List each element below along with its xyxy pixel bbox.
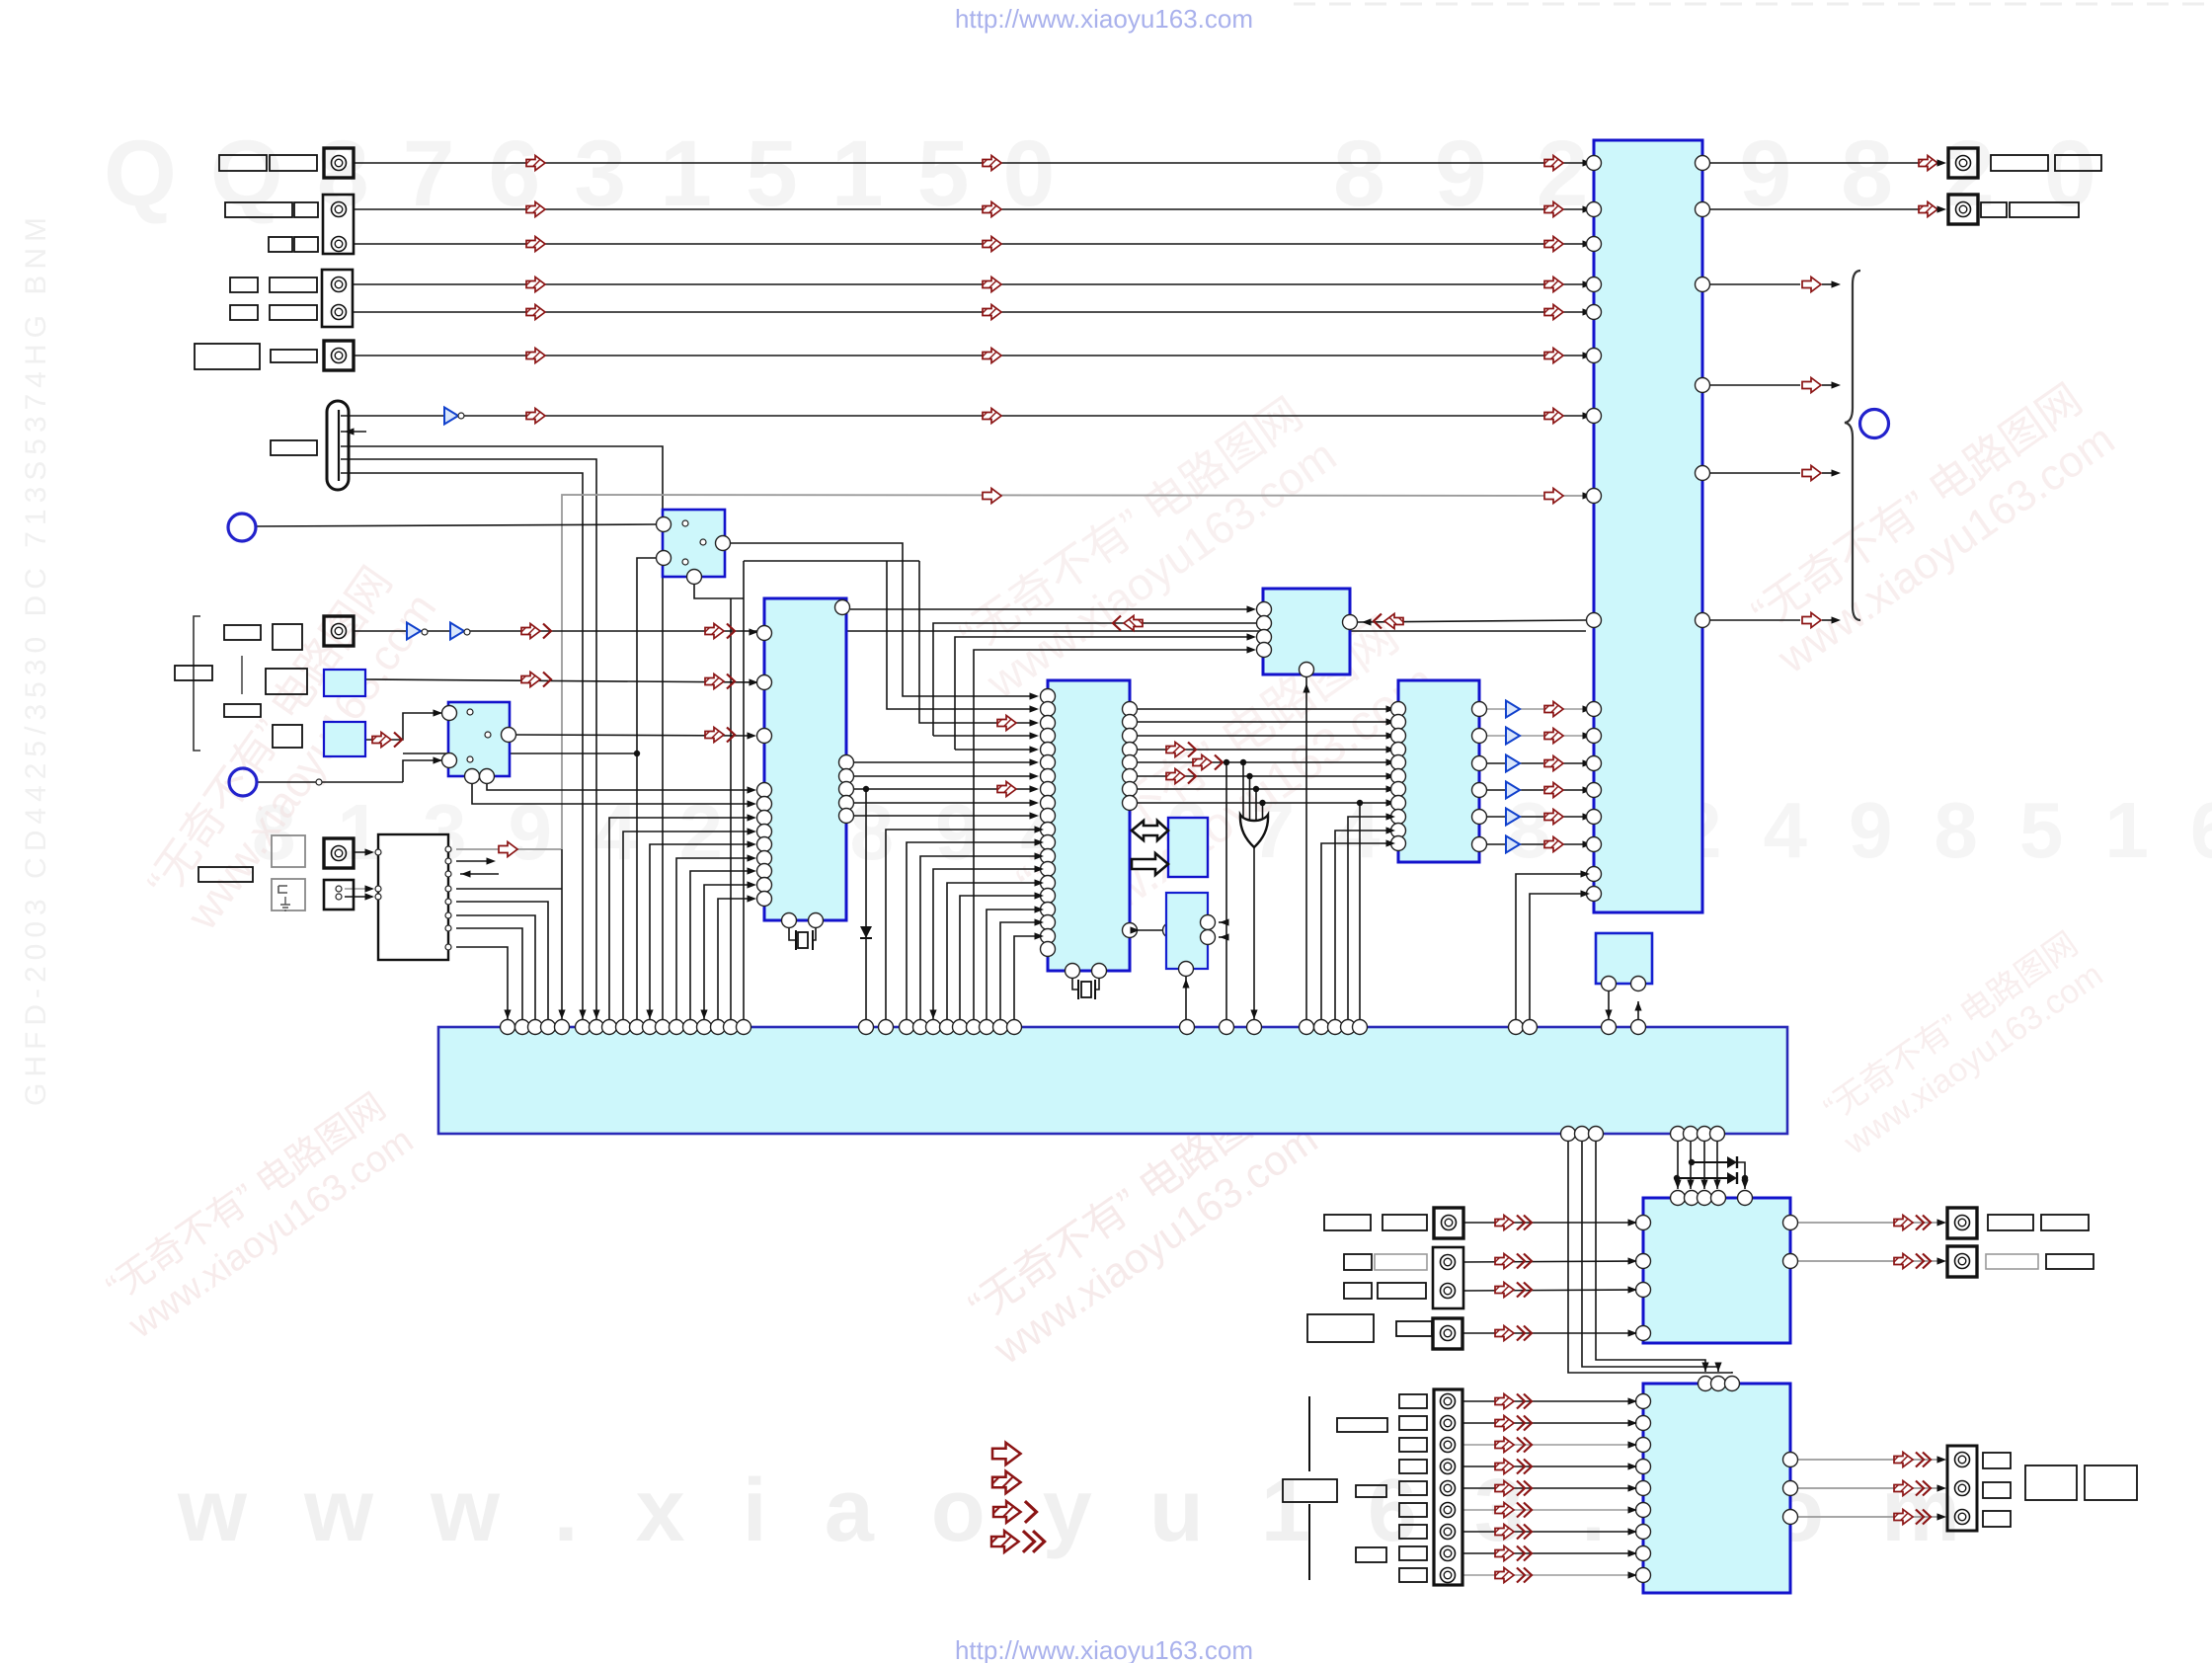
wire xyxy=(1563,708,1586,710)
triple arrow xyxy=(1495,1326,1532,1341)
IC1 left pin 910 xyxy=(757,892,772,907)
cyan box A xyxy=(1168,818,1208,877)
IC7 left pin 1306 xyxy=(1636,1283,1651,1298)
wire xyxy=(854,802,1034,804)
IC8 left pin 1529 xyxy=(1636,1503,1651,1518)
wire xyxy=(1710,384,1800,386)
signal arrow xyxy=(1919,156,1937,171)
wire xyxy=(1822,619,1835,621)
wire xyxy=(1637,1001,1639,1019)
IC7 left pin 1277 xyxy=(1636,1254,1651,1269)
wire xyxy=(345,888,372,890)
triple arrow xyxy=(1495,1503,1532,1518)
white arrow xyxy=(983,489,1001,504)
CN13 jack 1529 xyxy=(1441,1503,1456,1518)
svg-text:QQ876315150: QQ876315150 xyxy=(104,121,1088,226)
wire xyxy=(1520,762,1543,764)
signal arrow xyxy=(1544,156,1563,171)
IC4 left pin 827 xyxy=(1391,810,1406,825)
IC5 left pin 212 xyxy=(1587,202,1602,217)
wire xyxy=(1520,816,1543,818)
S1 pin 3 xyxy=(657,551,671,566)
wire xyxy=(1095,979,1099,990)
wire xyxy=(623,831,750,1027)
IC5 left pin 905 xyxy=(1587,887,1602,902)
bus node x671 xyxy=(656,1020,671,1035)
wire xyxy=(1516,874,1586,1027)
IC4 left pin 772 xyxy=(1391,755,1406,770)
input label rects row1 xyxy=(219,155,267,171)
IC IC7 (audio out) xyxy=(1643,1198,1790,1343)
wire xyxy=(1463,1222,1635,1224)
triple arrow xyxy=(1495,1254,1532,1269)
wire xyxy=(886,830,1040,1027)
wire xyxy=(1138,761,1390,763)
label rects mid row1 xyxy=(224,625,261,640)
wire xyxy=(354,283,1586,285)
bus node x1365 xyxy=(1341,1020,1356,1035)
IC2 left pin 921 xyxy=(1041,903,1056,917)
legend hatched arrow xyxy=(992,1471,1021,1494)
box B right pin 1 xyxy=(1201,915,1216,930)
signal arrow xyxy=(526,409,545,424)
bus bottom node x1726 xyxy=(1698,1127,1712,1142)
wire xyxy=(456,947,508,1027)
wire xyxy=(1710,619,1800,621)
wire xyxy=(561,849,563,1027)
black right arrow xyxy=(1132,853,1168,875)
wire xyxy=(1359,803,1361,1027)
connector CN14 xyxy=(1947,1446,1977,1531)
bus node x555 xyxy=(541,1020,556,1035)
jack J1 xyxy=(332,156,347,171)
wire xyxy=(1563,843,1586,845)
IC1 left pin 869 xyxy=(757,851,772,866)
IC4 left pin 759 xyxy=(1391,743,1406,757)
S1 pin 2 xyxy=(716,536,731,551)
IC2 left pin 705 xyxy=(1041,689,1056,704)
small 2-pin box xyxy=(324,880,354,910)
watermark top edge dashes xyxy=(1294,3,2212,6)
jack J4 xyxy=(332,277,347,292)
IC4 right pin 745 xyxy=(1472,729,1487,744)
label rects mid row2 xyxy=(175,666,212,680)
battery line xyxy=(1283,1479,1337,1502)
bus node x631 xyxy=(616,1020,631,1035)
wire xyxy=(1305,677,1307,1027)
signal arrow xyxy=(997,782,1016,797)
OR gate G1 xyxy=(1240,759,1246,765)
signal arrow xyxy=(1544,837,1563,852)
IC IC5 (main processor) xyxy=(1594,140,1702,912)
wire xyxy=(1308,1504,1310,1580)
test point TP1 (blue circle) xyxy=(228,514,256,541)
wire xyxy=(1138,708,1390,710)
wire xyxy=(1462,1531,1635,1533)
wire xyxy=(403,752,637,754)
bus node x945 xyxy=(926,1020,941,1035)
signal arrow xyxy=(983,409,1001,424)
wire IC3 out to IC5 xyxy=(1362,618,1372,625)
IC5 left pin 773 xyxy=(1587,756,1602,771)
IC8 left pin 1485 xyxy=(1636,1460,1651,1474)
wire xyxy=(1072,979,1078,990)
wire xyxy=(1692,1161,1727,1163)
wire xyxy=(1462,1422,1635,1424)
wire xyxy=(1690,1142,1692,1189)
signal arrow xyxy=(1544,349,1563,363)
IC1 left pin 800 xyxy=(757,783,772,798)
main bus block xyxy=(438,1027,1787,1134)
CN13 label rects xyxy=(1399,1394,1427,1408)
wire xyxy=(854,788,1034,790)
wire xyxy=(1138,788,1390,790)
connector CN2 (2 jacks) xyxy=(323,195,354,254)
IC2 left pin 907 xyxy=(1041,889,1056,904)
bus node x1027 xyxy=(1007,1020,1022,1035)
IC IC4 xyxy=(1398,680,1479,862)
wire xyxy=(456,902,548,1027)
IC2 right pin 759 xyxy=(1123,743,1138,757)
bus node x1535 xyxy=(1509,1020,1524,1035)
signal arrow xyxy=(983,305,1001,320)
signal arrow xyxy=(1544,277,1563,292)
wire xyxy=(690,871,750,1027)
K1 right pin 872 xyxy=(445,858,451,864)
IC2 left pin 745 xyxy=(1041,729,1056,744)
wire xyxy=(354,630,1586,632)
IC5 left pin 360 xyxy=(1587,349,1602,363)
wire xyxy=(744,560,919,562)
bus node x1270 xyxy=(1247,1020,1262,1035)
IC1 left pin 882 xyxy=(757,864,772,879)
triple arrow xyxy=(1495,1568,1532,1583)
jack J3 xyxy=(332,237,347,252)
wire xyxy=(731,543,1034,696)
wire xyxy=(1462,1552,1635,1554)
bus node x529 xyxy=(515,1020,530,1035)
wire xyxy=(1462,1487,1635,1489)
jack J2 xyxy=(332,202,347,217)
bus node x959 xyxy=(940,1020,955,1035)
wire xyxy=(1462,1509,1635,1511)
bus node x986 xyxy=(967,1020,982,1035)
wire xyxy=(1582,1142,1718,1372)
wire xyxy=(679,541,699,544)
triple arrow xyxy=(1495,1416,1532,1431)
IC5 left pin 855 xyxy=(1587,837,1602,852)
wire xyxy=(974,650,1250,1027)
bus bottom node x1699 xyxy=(1671,1127,1686,1142)
CN13 jack 1463 xyxy=(1441,1438,1456,1453)
K1 right pin 940 xyxy=(445,925,451,931)
key block K1 xyxy=(378,834,448,960)
white arrow xyxy=(1802,277,1821,292)
wire xyxy=(1262,803,1264,826)
IC1 left pin 828 xyxy=(757,811,772,826)
cyan box M1 xyxy=(324,670,365,696)
wire xyxy=(704,885,750,1027)
signal arrow xyxy=(1544,783,1563,798)
IC5 right pin 479 xyxy=(1696,466,1710,481)
wire xyxy=(865,789,867,1027)
double arrow xyxy=(1193,755,1223,770)
wire xyxy=(795,930,797,950)
wire xyxy=(1737,1162,1745,1178)
bus bottom node x1588 xyxy=(1561,1127,1576,1142)
IC5 left pin 502 xyxy=(1587,489,1602,504)
double arrow xyxy=(705,624,735,639)
wire xyxy=(1335,831,1390,1027)
IC3 bottom pin xyxy=(1300,663,1314,677)
white arrow xyxy=(1802,466,1821,481)
wire xyxy=(341,446,663,1027)
IC2 right pin 772 xyxy=(1123,755,1138,770)
CN13 jack 1485 xyxy=(1441,1460,1456,1474)
CN13 jack 1573 xyxy=(1441,1546,1456,1561)
connector CN12 xyxy=(1947,1246,1977,1277)
cyan box M2 xyxy=(324,722,365,756)
K1 right pin 885 xyxy=(445,871,451,877)
jack J6 xyxy=(332,349,347,363)
IC5 left pin 827 xyxy=(1587,810,1602,825)
IC IC2 xyxy=(1048,680,1130,971)
wire xyxy=(1563,816,1586,818)
S1 pin 1 xyxy=(657,517,671,532)
IC3 left pin 658 xyxy=(1257,643,1272,658)
left arrow xyxy=(1113,616,1143,631)
triple arrow xyxy=(1495,1394,1532,1409)
wire xyxy=(354,162,1586,164)
signal arrow xyxy=(526,305,545,320)
wire xyxy=(1462,1444,1635,1446)
IC4 left pin 718 xyxy=(1391,702,1406,717)
IC4 left pin 745 xyxy=(1391,729,1406,744)
connector CN1 xyxy=(324,148,354,178)
IC5 left pin 421 xyxy=(1587,409,1602,424)
wire xyxy=(718,899,750,1027)
bus node x1323 xyxy=(1300,1020,1314,1035)
triple arrow xyxy=(1894,1453,1931,1467)
wire xyxy=(1463,1290,1635,1291)
bus node x514 xyxy=(501,1020,515,1035)
wire xyxy=(730,598,732,1027)
CN13 jack 1595 xyxy=(1441,1568,1456,1583)
double arrow xyxy=(705,728,735,743)
wire xyxy=(1530,894,1586,1027)
diode D2 xyxy=(1727,1156,1737,1168)
IC5 left pin 718 xyxy=(1587,702,1602,717)
IC2 left pin 934 xyxy=(1041,915,1056,930)
wire xyxy=(1409,810,1422,812)
bus node x1352 xyxy=(1328,1020,1343,1035)
wire xyxy=(887,561,1034,709)
IC5 right pin 165 xyxy=(1696,156,1710,171)
IC7 top pin 1699 xyxy=(1671,1191,1686,1206)
wire xyxy=(609,818,750,1027)
triple arrow xyxy=(1495,1438,1532,1453)
input label rects row6 xyxy=(195,344,260,369)
wire IC3 bottom to bus xyxy=(1303,683,1309,693)
signal arrow xyxy=(1919,202,1937,217)
wire xyxy=(854,761,1034,763)
input label rects row4 xyxy=(230,277,258,292)
IC2 left pin 840 xyxy=(1041,823,1056,837)
wire xyxy=(1487,843,1505,845)
triple arrow xyxy=(1894,1216,1931,1230)
wire xyxy=(1358,620,1586,622)
wire TP2 to S2 xyxy=(316,779,322,785)
signal arrow xyxy=(997,716,1016,731)
IC2 left pin 799 xyxy=(1041,782,1056,797)
IC2 right pin 786 xyxy=(1123,769,1138,784)
IC5 left pin 165 xyxy=(1587,156,1602,171)
wire xyxy=(341,415,443,417)
box B bottom pin xyxy=(1179,962,1194,977)
IC4 left pin 786 xyxy=(1391,769,1406,784)
wire xyxy=(1138,775,1390,777)
IC5 right pin 628 xyxy=(1696,613,1710,628)
signal arrow xyxy=(983,202,1001,217)
IC5 left pin 316 xyxy=(1587,305,1602,320)
IC5 right pin 288 xyxy=(1696,277,1710,292)
IC2 left pin 772 xyxy=(1041,755,1056,770)
CN13 jack 1507 xyxy=(1441,1481,1456,1496)
wire xyxy=(789,928,796,940)
bus node x542 xyxy=(528,1020,543,1035)
triple arrow xyxy=(1495,1525,1532,1540)
wire xyxy=(1822,472,1835,474)
triple arrow xyxy=(1495,1283,1532,1298)
svg-text:89249820: 89249820 xyxy=(1333,121,2146,226)
wire xyxy=(354,355,1586,356)
buffer B3 xyxy=(450,623,464,640)
CN13 jack 1441 xyxy=(1441,1416,1456,1431)
wire xyxy=(1563,762,1586,764)
cyan box B xyxy=(1166,893,1208,969)
jack J9 xyxy=(324,838,354,868)
legend open arrow xyxy=(992,1443,1021,1465)
IC2 right pin 731 xyxy=(1123,715,1138,730)
S2 pin 1 xyxy=(442,706,457,721)
wire xyxy=(907,842,1040,1027)
signal arrow xyxy=(983,156,1001,171)
test point TP3 (blue circle) xyxy=(1860,410,1889,438)
wire xyxy=(458,415,1586,417)
stadium connector CN5 xyxy=(327,401,349,490)
double arrow xyxy=(372,733,402,748)
wire xyxy=(341,431,366,433)
signal arrow xyxy=(526,237,545,252)
triple arrow xyxy=(1495,1546,1532,1561)
wire xyxy=(1596,1142,1705,1372)
wire xyxy=(1822,384,1835,386)
wire xyxy=(1798,1222,1940,1224)
wire xyxy=(1520,789,1543,791)
buffer xyxy=(1506,728,1520,745)
K1 right pin 959 xyxy=(445,944,451,950)
IC5 bottom-left wires xyxy=(1581,870,1591,877)
wire xyxy=(850,608,1250,610)
IC8 left pin 1463 xyxy=(1636,1438,1651,1453)
triple arrow xyxy=(1495,1216,1532,1230)
triple arrow xyxy=(1495,1460,1532,1474)
input label rects row5 xyxy=(230,305,258,320)
gray square SW boxes xyxy=(272,835,305,867)
switch S2 xyxy=(448,702,510,776)
IC7 top pin 1713 xyxy=(1685,1191,1699,1206)
signal arrow xyxy=(1544,756,1563,771)
wire xyxy=(920,856,1040,1027)
bus node x1338 xyxy=(1314,1020,1329,1035)
wire row 421 xyxy=(1583,412,1593,419)
buffer xyxy=(1506,701,1520,718)
IC2 left pin 759 xyxy=(1041,743,1056,757)
wire xyxy=(1798,1459,1940,1461)
IC1 right pin 786 xyxy=(839,769,854,784)
connector CN4 xyxy=(324,341,354,370)
watermark pink diagonals xyxy=(135,555,445,939)
connector CN3 (2 jacks) xyxy=(322,270,353,327)
wire xyxy=(1487,708,1505,710)
buffer xyxy=(1506,809,1520,826)
wire xyxy=(1677,1177,1727,1179)
wire xyxy=(1219,921,1226,923)
bus node x658 xyxy=(643,1020,658,1035)
IC IC1 xyxy=(764,598,846,920)
input label rects row2 xyxy=(225,202,292,217)
bus node x1659 xyxy=(1631,1020,1646,1035)
IC8 right pin 1536 xyxy=(1783,1510,1798,1525)
wire xyxy=(365,679,756,682)
wire xyxy=(1348,817,1390,1027)
IC4 right pin 855 xyxy=(1472,837,1487,852)
wire xyxy=(1138,929,1163,931)
IC2 bottom pins + crystal X2 xyxy=(1066,964,1080,979)
legend triple arrow xyxy=(991,1531,1045,1552)
net wire y568 xyxy=(1030,705,1040,712)
wire xyxy=(694,584,744,598)
IC4 left pin 799 xyxy=(1391,782,1406,797)
wire xyxy=(812,930,814,950)
bus node x685 xyxy=(670,1020,684,1035)
signal arrow xyxy=(1544,237,1563,252)
IC1 bottom pins + crystal X1 xyxy=(782,913,797,928)
wire xyxy=(1463,1261,1635,1262)
wire xyxy=(338,410,340,481)
signal arrow xyxy=(1544,729,1563,744)
IC8 right pin 1478 xyxy=(1783,1453,1798,1467)
IC2 left pin 894 xyxy=(1041,876,1056,891)
IC2 right pin 745 xyxy=(1123,729,1138,744)
buffer B2 xyxy=(407,623,421,640)
black double arrow xyxy=(1132,821,1168,840)
double arrow xyxy=(1166,769,1196,784)
wire xyxy=(1520,735,1543,737)
wire xyxy=(1249,776,1251,826)
IC1 left pin 745 xyxy=(757,729,772,744)
IC7 top pin 1740 xyxy=(1711,1191,1726,1206)
S2 pin 2 xyxy=(502,728,516,743)
IC1 left pin 641 xyxy=(757,626,772,641)
double arrow xyxy=(521,673,551,687)
wire xyxy=(1014,936,1040,1027)
IC8 left pin 1507 xyxy=(1636,1481,1651,1496)
wire xyxy=(354,851,372,853)
legend double arrow xyxy=(993,1501,1037,1523)
signal arrow xyxy=(983,277,1001,292)
gray standby wire xyxy=(1583,492,1593,499)
